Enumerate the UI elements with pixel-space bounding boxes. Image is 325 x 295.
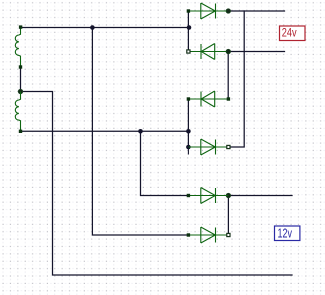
svg-text:24v: 24v xyxy=(282,26,297,40)
svg-text:12v: 12v xyxy=(278,226,293,241)
